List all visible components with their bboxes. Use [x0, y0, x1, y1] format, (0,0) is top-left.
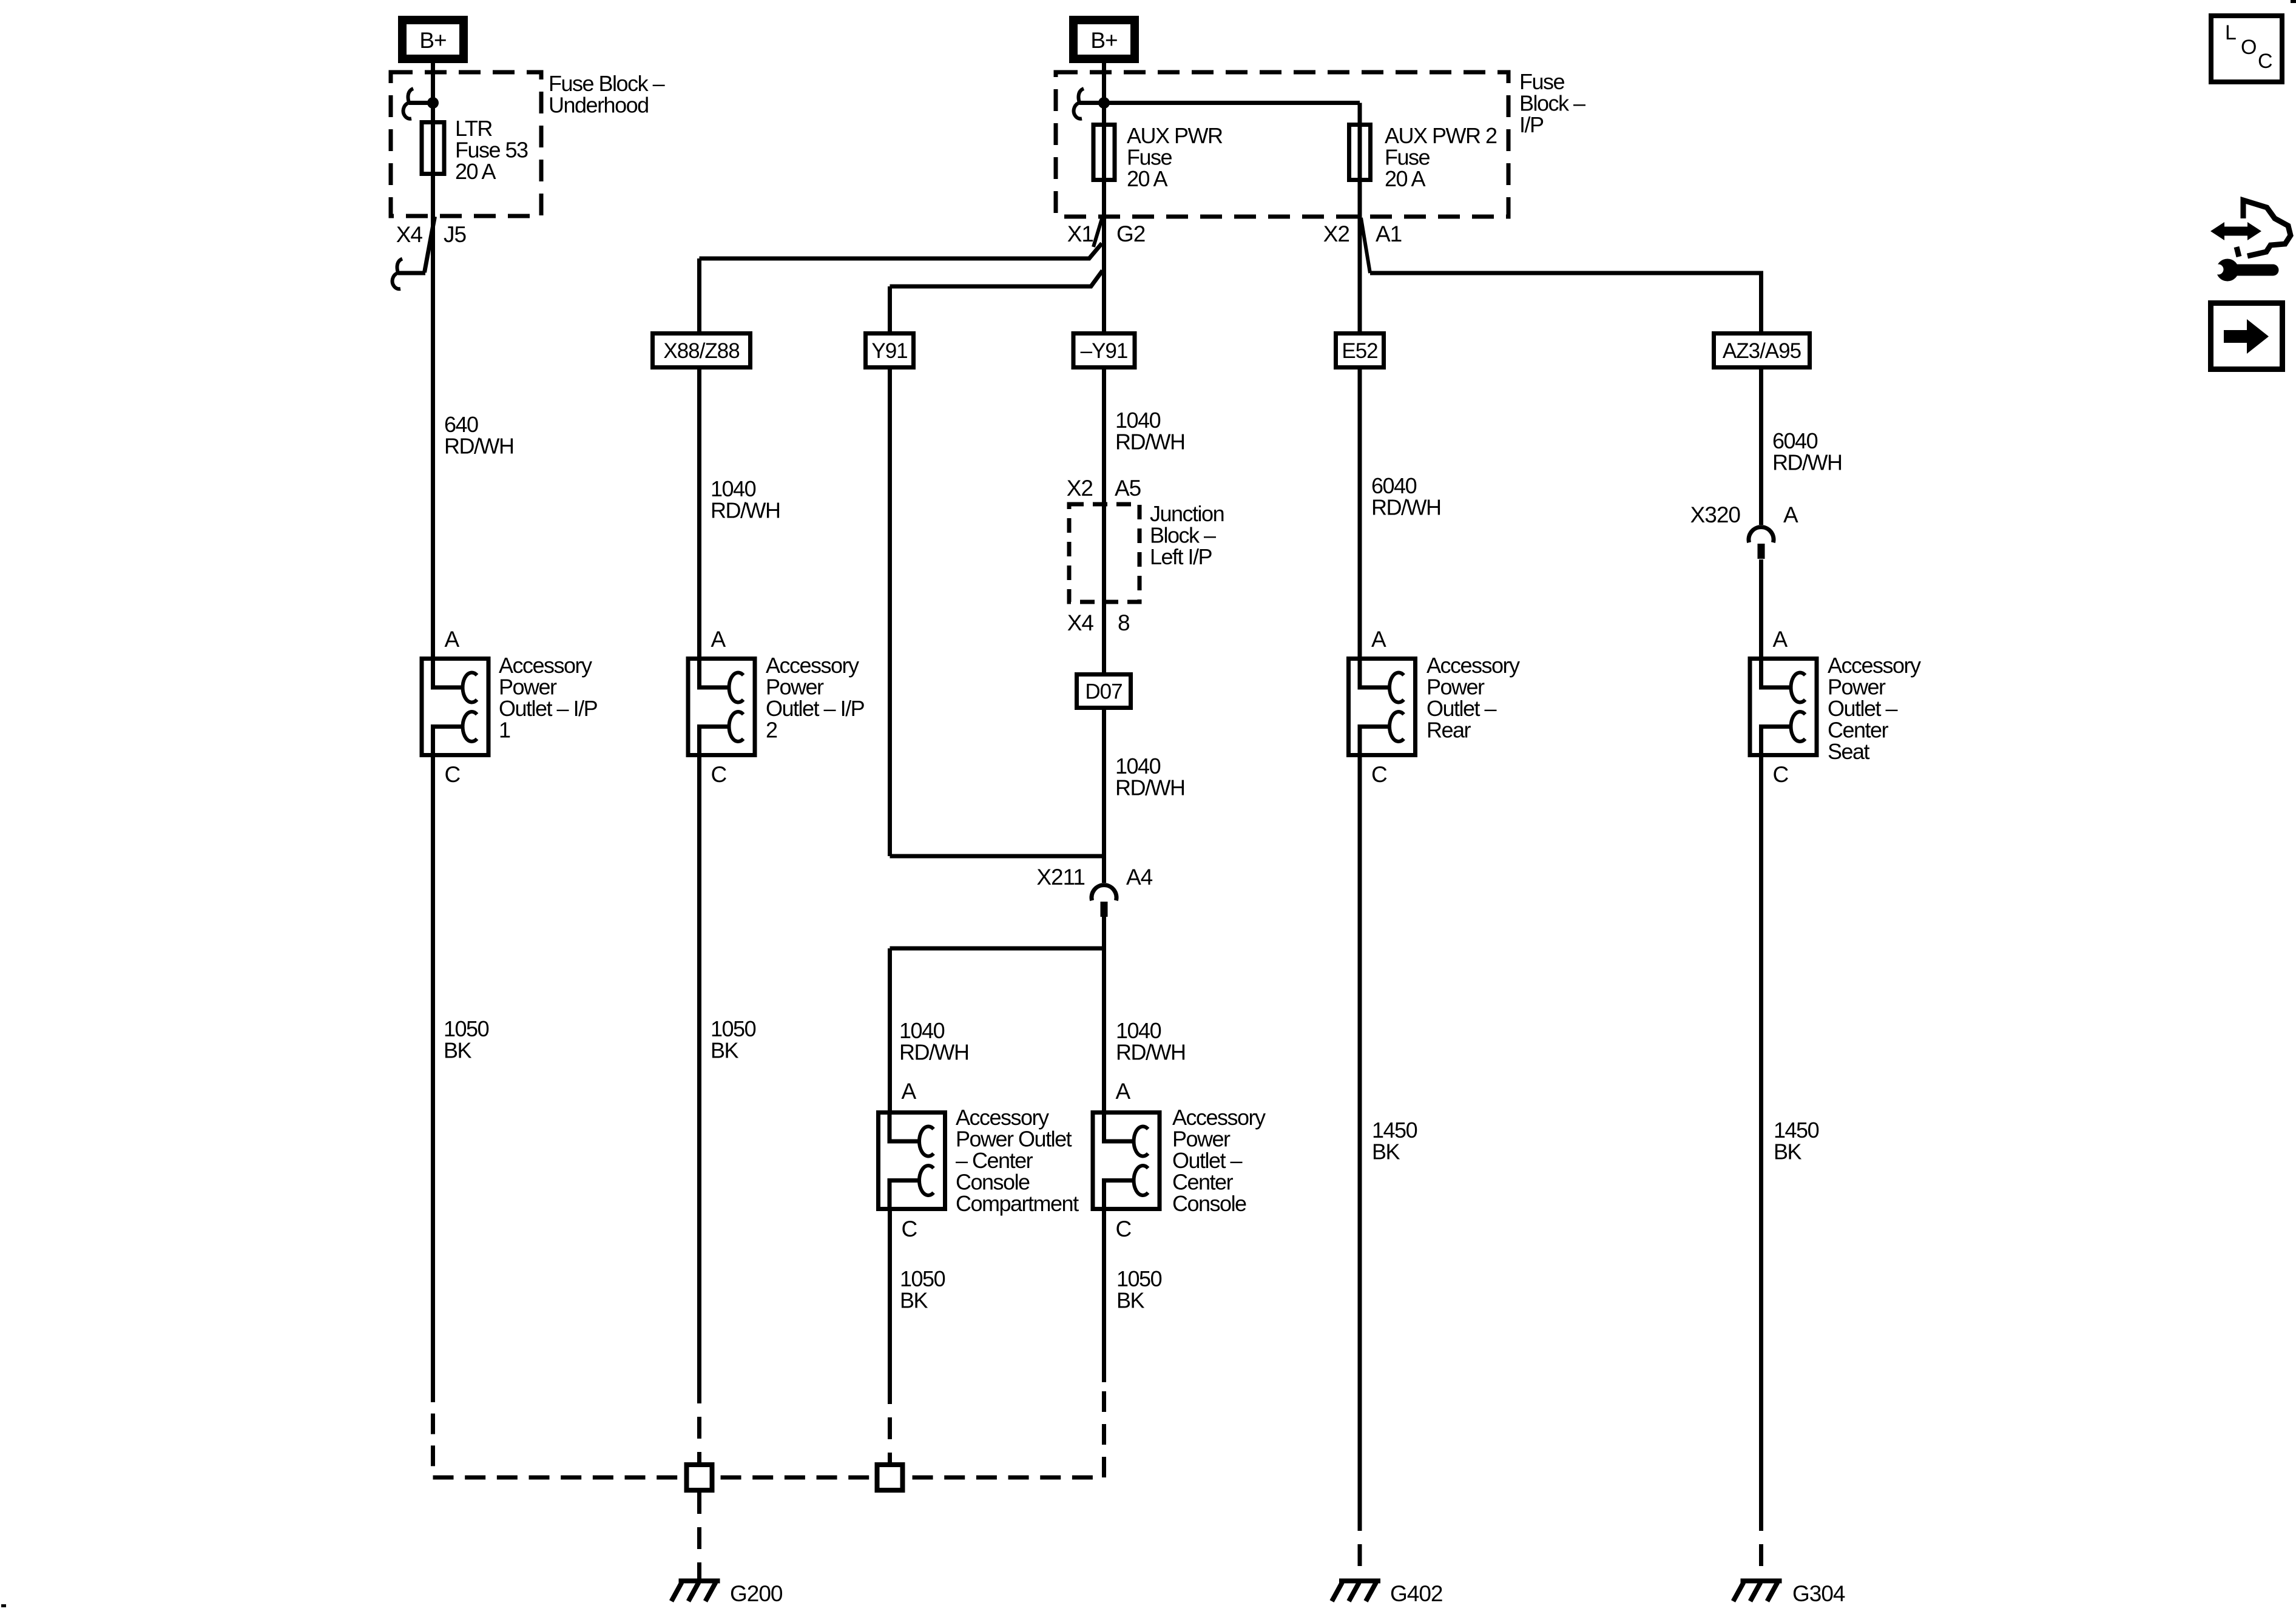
svg-text:RD/WH: RD/WH: [1115, 430, 1184, 454]
svg-text:C: C: [1371, 762, 1387, 787]
svg-text:A: A: [1371, 627, 1386, 652]
svg-text:Console: Console: [1172, 1191, 1246, 1216]
svg-text:RD/WH: RD/WH: [899, 1040, 968, 1065]
svg-text:D07: D07: [1085, 680, 1122, 704]
svg-text:G2: G2: [1116, 221, 1145, 246]
svg-text:X4: X4: [396, 222, 423, 247]
svg-text:20 A: 20 A: [1127, 166, 1168, 191]
svg-text:I/P: I/P: [1519, 112, 1544, 137]
svg-text:AZ3/A95: AZ3/A95: [1723, 339, 1801, 363]
svg-text:C: C: [902, 1217, 917, 1241]
svg-text:Seat: Seat: [1828, 739, 1870, 764]
svg-text:Left I/P: Left I/P: [1150, 544, 1212, 569]
svg-text:L: L: [2225, 21, 2237, 44]
svg-text:RD/WH: RD/WH: [711, 498, 780, 523]
svg-text:BK: BK: [900, 1288, 928, 1313]
svg-text:A1: A1: [1376, 221, 1402, 246]
svg-text:A: A: [902, 1079, 917, 1104]
svg-text:C: C: [2258, 50, 2273, 73]
svg-text:20 A: 20 A: [1385, 166, 1426, 191]
svg-text:X2: X2: [1323, 221, 1349, 246]
svg-text:C: C: [1773, 762, 1789, 787]
svg-text:A5: A5: [1115, 476, 1141, 501]
svg-text:–Y91: –Y91: [1081, 339, 1128, 363]
svg-text:A: A: [1773, 627, 1788, 652]
svg-text:Outlet – I/P: Outlet – I/P: [499, 696, 598, 721]
svg-text:A: A: [445, 627, 460, 652]
svg-text:Underhood: Underhood: [549, 93, 649, 118]
svg-text:X1: X1: [1067, 221, 1093, 246]
svg-text:X4: X4: [1067, 610, 1094, 635]
svg-text:RD/WH: RD/WH: [1115, 775, 1184, 800]
svg-text:8: 8: [1118, 610, 1130, 635]
svg-text:Compartment: Compartment: [956, 1191, 1079, 1216]
svg-text:A: A: [1783, 502, 1798, 527]
svg-text:A4: A4: [1126, 865, 1153, 890]
svg-text:X211: X211: [1036, 865, 1085, 890]
svg-text:Rear: Rear: [1427, 718, 1471, 743]
svg-text:C: C: [445, 762, 461, 787]
svg-text:Y91: Y91: [871, 339, 907, 363]
svg-text:BK: BK: [1116, 1288, 1145, 1313]
svg-text:20 A: 20 A: [455, 159, 496, 184]
svg-text:RD/WH: RD/WH: [1371, 495, 1440, 520]
svg-text:X320: X320: [1690, 502, 1741, 527]
svg-text:C: C: [1116, 1217, 1132, 1241]
svg-text:E52: E52: [1342, 339, 1377, 363]
svg-text:BK: BK: [444, 1038, 472, 1063]
svg-text:O: O: [2241, 36, 2257, 59]
svg-text:C: C: [711, 762, 727, 787]
svg-text:X2: X2: [1067, 476, 1093, 501]
svg-text:G402: G402: [1390, 1581, 1443, 1606]
svg-text:2: 2: [766, 718, 777, 743]
svg-text:X88/Z88: X88/Z88: [663, 339, 739, 363]
svg-text:Outlet – I/P: Outlet – I/P: [766, 696, 865, 721]
svg-text:RD/WH: RD/WH: [1772, 450, 1842, 475]
svg-text:G304: G304: [1792, 1581, 1845, 1606]
svg-text:RD/WH: RD/WH: [1116, 1040, 1185, 1065]
svg-text:J5: J5: [444, 222, 467, 247]
svg-text:G200: G200: [730, 1581, 783, 1606]
svg-text:1: 1: [499, 718, 510, 743]
svg-text:RD/WH: RD/WH: [444, 434, 513, 459]
svg-text:BK: BK: [711, 1038, 739, 1063]
svg-text:A: A: [711, 627, 726, 652]
svg-text:BK: BK: [1372, 1139, 1400, 1164]
svg-text:BK: BK: [1774, 1139, 1802, 1164]
svg-text:A: A: [1116, 1079, 1131, 1104]
